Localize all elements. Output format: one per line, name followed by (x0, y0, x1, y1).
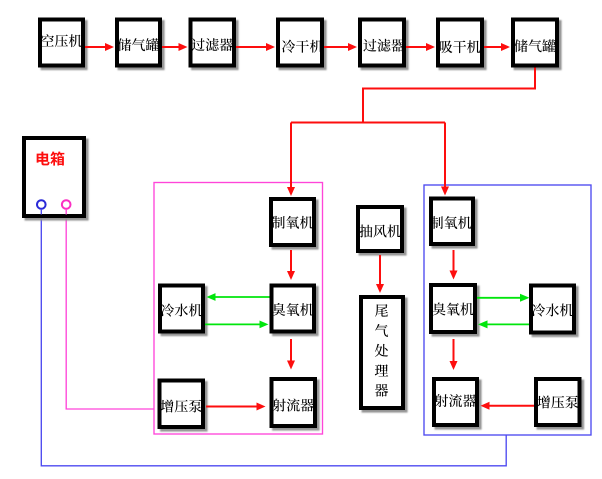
box zhiyangji-L 制氧机 (271, 199, 314, 245)
arrow guolvqi2 to xiganji (406, 43, 435, 51)
wire stub pink inside dianxiang (65, 209, 67, 215)
wire red from chuqiguan2 down-left (363, 68, 535, 123)
box choufengji 抽风机 (358, 207, 402, 251)
arrow green chouyangji-R to lengshuiji-R (477, 294, 530, 302)
box lengshuiji-R 冷水机 (531, 286, 574, 333)
left group frame (pink) (154, 183, 323, 435)
arrow zengyabeng-R to sheliuqi-R (481, 402, 535, 410)
right group frame (blue) (424, 185, 591, 435)
terminal pink (62, 200, 71, 209)
arrow zhiyangji-L to chouyangji-L (287, 250, 295, 280)
wire pink from dianxiang to left group (66, 209, 154, 409)
arrow green lengshuiji-R to chouyangji-R (478, 320, 529, 328)
arrow red to zhiyangji-R (441, 123, 449, 196)
arrow choufengji to weiqichuliqi (376, 255, 384, 293)
box kongyaji 空压机 (40, 20, 83, 66)
box lengganji 冷干机 (278, 20, 323, 66)
arrow xiganji to chuqiguan2 (484, 43, 510, 51)
terminal blue (37, 200, 46, 209)
arrow green lengshuiji-L to chouyangji-L (205, 321, 269, 329)
arrow chouyangji-R to sheliuqi-R (450, 339, 458, 370)
box xiganji 吸干机 (438, 20, 482, 66)
arrow guolvqi1 to lengganji (236, 43, 275, 51)
arrow red to zhiyangji-L (287, 123, 295, 197)
box weiqichuliqi 尾气处理器 (361, 297, 403, 408)
arrow lengganji to guolvqi2 (324, 43, 357, 51)
box zengyabeng-L 增压泵 (160, 381, 204, 428)
box chuqiguan1 储气罐 (117, 20, 160, 66)
box lengshuiji-L 冷水机 (160, 286, 203, 332)
arrow chuqiguan1 to guolvqi1 (162, 43, 188, 51)
arrow kongyaji to chuqiguan1 (85, 43, 114, 51)
arrow zhiyangji-R to chouyangji-R (450, 250, 458, 280)
box dianxiang 电箱 (24, 138, 84, 216)
box chuqiguan2 储气罐 (513, 20, 557, 66)
box sheliuqi-L 射流器 (272, 379, 316, 426)
box chouyangji-L 臭氧机 (272, 286, 315, 332)
wire stub blue inside dianxiang (40, 209, 42, 215)
wire red split horizontal (291, 122, 445, 124)
box zhiyangji-R 制氧机 (430, 199, 473, 245)
box guolvqi1 过滤器 (191, 20, 235, 66)
box chouyangji-R 臭氧机 (431, 285, 475, 332)
arrow zengyabeng-L to sheliuqi-L (206, 403, 266, 411)
box sheliuqi-R 射流器 (434, 379, 477, 425)
box guolvqi2 过滤器 (360, 20, 405, 66)
arrow green chouyangji-L to lengshuiji-L (207, 293, 270, 301)
wire blue from dianxiang to right group (41, 209, 506, 466)
box zengyabeng-R 增压泵 (536, 379, 580, 425)
arrow chouyangji-L to sheliuqi-L (287, 339, 295, 370)
